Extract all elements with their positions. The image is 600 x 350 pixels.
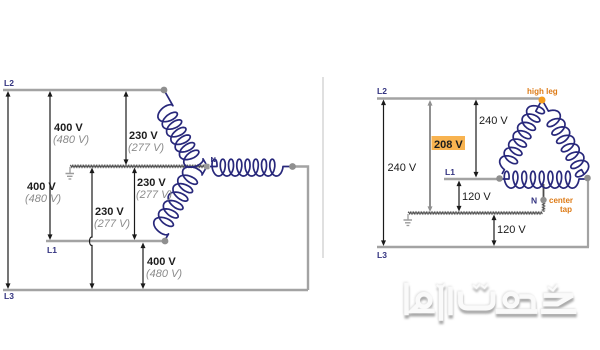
svg-text:400 V: 400 V (147, 256, 176, 268)
label 400V(480V) for L2-L1 (53, 122, 89, 146)
svg-text:tap: tap (560, 205, 572, 214)
high leg dot (539, 97, 546, 104)
svg-text:L1: L1 (445, 167, 455, 177)
arrow 208V L2-N gray (428, 100, 433, 212)
svg-text:N: N (211, 155, 216, 164)
separator line (322, 77, 324, 258)
wire center tap lead (543, 184, 545, 198)
wire L3 left (3, 289, 308, 291)
coil delta left (500, 102, 545, 175)
wire center tap to bus (hatched) (542, 202, 544, 212)
wire L2 left (3, 89, 164, 91)
node N junction square (204, 164, 210, 170)
svg-text:(277 V): (277 V) (128, 142, 164, 154)
svg-text:240 V: 240 V (479, 115, 508, 127)
svg-text:(277 V): (277 V) (94, 218, 130, 230)
label 400V(480V) for L1-L3 (146, 256, 182, 280)
arrow 120V N-L3 right (492, 215, 497, 247)
coil delta right (543, 102, 589, 177)
coil delta bottom (502, 171, 586, 188)
svg-text:L1: L1 (47, 245, 57, 255)
svg-text:230 V: 230 V (137, 177, 166, 189)
svg-text:120 V: 120 V (497, 224, 526, 236)
svg-text:(480 V): (480 V) (53, 134, 89, 146)
junction dot right of wye (289, 163, 296, 170)
ground right (404, 214, 413, 226)
svg-text:L2: L2 (377, 86, 387, 96)
svg-text:230 V: 230 V (95, 206, 124, 218)
arrow 120V L1-N right (457, 181, 462, 212)
svg-text:L2: L2 (4, 78, 14, 88)
svg-text:(480 V): (480 V) (25, 193, 61, 205)
label 208V highlighted (432, 136, 466, 151)
arrow 240V L2-L1 right (474, 100, 479, 178)
arrow 230V L2-N left (124, 91, 129, 165)
wire L1 right (444, 178, 499, 180)
label 400V(480V) for L2-L3 (25, 181, 61, 205)
svg-text:(277 V): (277 V) (136, 189, 172, 201)
arrow 230V N-L3 left (hop over L1) (90, 168, 95, 290)
wire right side of wye (292, 167, 308, 291)
junction dot L2 (161, 87, 168, 94)
label 230V(277V) for N-L3 (94, 206, 130, 230)
svg-text:208 V: 208 V (434, 139, 463, 151)
arrow 400V L1-L3 left (141, 243, 146, 290)
coil N-right (210, 159, 290, 176)
arrow 400V L2-L3 left (6, 91, 11, 289)
svg-text:L3: L3 (4, 291, 14, 301)
wire L3 right (377, 246, 589, 248)
svg-text:400 V: 400 V (27, 181, 56, 193)
wire L2 right (377, 97, 541, 99)
svg-text:center: center (549, 196, 573, 205)
neutral bus left (hatched) (70, 165, 204, 167)
coil L2-N (158, 90, 206, 167)
junction dot delta BL (496, 175, 503, 182)
svg-text:400 V: 400 V (54, 122, 83, 134)
svg-text:L3: L3 (377, 250, 387, 260)
label 230V(277V) for N-L1 (136, 177, 172, 201)
arrow 240V L2-L3 right (381, 100, 386, 247)
junction dot L1 (162, 238, 169, 245)
coil N-L1 (154, 167, 206, 240)
arrow 400V L2-L1 left (48, 91, 53, 240)
ground left (66, 167, 75, 179)
node N center tap dot (540, 197, 546, 203)
svg-text:(480 V): (480 V) (146, 268, 182, 280)
svg-text:high leg: high leg (527, 87, 558, 96)
svg-text:230 V: 230 V (129, 130, 158, 142)
delta apex leads (541, 100, 543, 102)
svg-text:N: N (531, 196, 537, 206)
svg-text:240 V: 240 V (388, 162, 417, 174)
arrow 230V N-L1 left (132, 168, 137, 241)
junction dot delta BR (584, 175, 591, 182)
svg-text:120 V: 120 V (462, 191, 491, 203)
wire L1 left (46, 240, 164, 242)
delta vertex leads bottom (500, 178, 588, 181)
label 230V(277V) for L2-N (128, 130, 164, 154)
center tap label (549, 196, 573, 214)
neutral bus right (hatched) (408, 212, 542, 214)
wire right side of delta (587, 179, 589, 247)
